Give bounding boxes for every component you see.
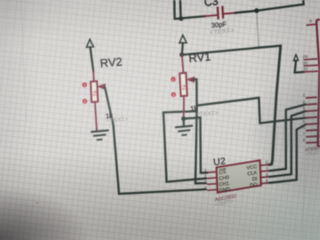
svg-text:30: 30 [303, 60, 308, 65]
wire top vertical A [173, 0, 176, 19]
capacitor C3 plate 1 [217, 8, 220, 19]
pin dot RV2 bottom [82, 99, 87, 104]
AT89 pin 9 stub [306, 23, 316, 26]
wire U2 DI to P1 [269, 111, 306, 177]
U2 pin 7 stub [260, 170, 269, 173]
AT89 pins 1-8 stubs [306, 97, 318, 143]
svg-text:1: 1 [172, 78, 174, 82]
svg-text:3: 3 [84, 100, 86, 104]
svg-text:31: 31 [303, 66, 308, 71]
wire VCC rail down to U2 pin8 [269, 46, 281, 165]
potentiometer RV2 lead bottom [95, 102, 97, 131]
wire U2 DO to P1 [269, 124, 306, 183]
pin dot RV1 bottom [171, 92, 176, 97]
node junction RV1 vcc [180, 53, 185, 58]
wire top vertical B [179, 0, 182, 19]
potentiometer RV1 body [180, 73, 188, 96]
IC AT89C51 body edge [316, 20, 320, 147]
node junction C3 right [254, 8, 259, 13]
U2 pin 1 stub [208, 171, 217, 174]
wire top horizontal to C3 [175, 16, 206, 19]
U2 pin numbers right [266, 160, 269, 183]
svg-text:U2: U2 [213, 156, 226, 168]
wire faint vertical from C3 node down [257, 11, 259, 48]
svg-text:RV2: RV2 [100, 56, 123, 70]
wire branch H2 [163, 111, 206, 182]
capacitor C3 lead right [223, 13, 235, 14]
potentiometer RV2 lead top [92, 71, 95, 81]
U2 pin numbers left [204, 168, 207, 191]
wire RV1 wiper down to U2 CH1 [194, 79, 206, 183]
U2 pin 5 stub [261, 182, 270, 185]
capacitor C3 plate 2 [221, 7, 224, 18]
ground RV1 [176, 126, 192, 135]
wire VCC to pin31 [295, 61, 304, 73]
wire RV2 wiper to U2 GND pin [119, 189, 206, 194]
svg-text:1: 1 [84, 84, 86, 88]
potentiometer RV1 lead top [182, 55, 184, 73]
AT89 pin numbers 1-8 [303, 93, 306, 143]
U2 pin 8 stub [260, 164, 269, 167]
power arrow VCC RV2 [87, 39, 94, 47]
U2 pin 6 stub [260, 176, 269, 179]
wire gnd stem RV1 [183, 119, 185, 126]
AT89 pin 31 stub [304, 70, 318, 73]
potentiometer RV1 wiper arrow [188, 77, 194, 82]
IC U2 body [216, 160, 261, 192]
AT89 pin 29 stub [304, 58, 318, 61]
AT89 pin 30 stub [304, 64, 318, 67]
U2 pin 4 stub [208, 189, 218, 192]
svg-text:29: 29 [303, 54, 308, 59]
potentiometer RV1 lead bottom [183, 96, 185, 118]
wire VCC rail to right [182, 46, 281, 55]
svg-text:C3: C3 [204, 0, 219, 9]
svg-text:RV1: RV1 [188, 51, 211, 65]
AT89 pin names P1.x clipped [318, 95, 320, 145]
AT89 pin numbers 29 30 31 [303, 54, 309, 71]
wire RV2 wiper down [105, 87, 119, 194]
U2 pin 3 stub [208, 183, 217, 186]
potentiometer RV2 body [91, 81, 98, 102]
wire U2 CLK to P1 [269, 104, 306, 170]
U2 pin 2 stub [208, 177, 217, 180]
svg-text:9: 9 [309, 18, 312, 23]
capacitor C3 lead left [205, 15, 217, 16]
pin dot RV1 top [171, 77, 176, 82]
U2 pin name CS overline [219, 168, 226, 171]
wire VCC stem RV1 [182, 43, 183, 55]
power arrow VCC EA [294, 55, 299, 61]
potentiometer RV2 wiper arrow [99, 84, 105, 89]
power arrow VCC RV1 [179, 35, 186, 43]
svg-text:3: 3 [173, 93, 175, 97]
wire gnd junction to CS [184, 118, 208, 173]
wire rail wiper to right [197, 98, 306, 123]
svg-text:DO: DO [250, 182, 258, 189]
ground RV2 [92, 130, 108, 139]
wire node to top right corner [257, 0, 304, 11]
node junction RV1 gnd [181, 116, 186, 121]
wire VCC stem RV2 [90, 47, 93, 71]
pin dot RV2 top [82, 82, 87, 87]
node junction top [179, 16, 184, 21]
wire C3 to node [235, 11, 257, 13]
